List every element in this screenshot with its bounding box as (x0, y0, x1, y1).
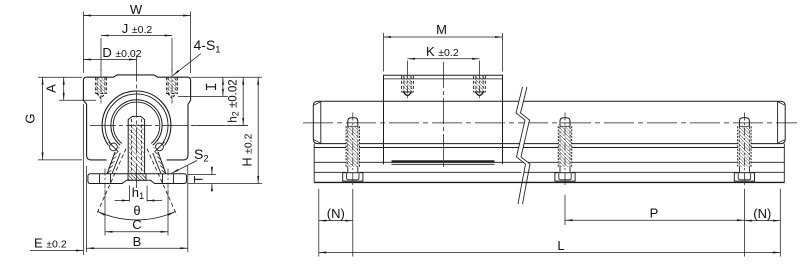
left mouth wall lines (107, 151, 120, 174)
open mouth white sector (105, 128, 168, 173)
svg-text:H ±0.2: H ±0.2 (241, 133, 255, 166)
svg-text:θ: θ (133, 203, 140, 218)
dimension W (83, 2, 190, 17)
slide block outline (side view) (384, 75, 503, 164)
dimension E extension line (82, 104, 84, 255)
support right end vertical (783, 144, 785, 183)
theta dashed line left (96, 149, 126, 216)
left wedge hatch (107, 147, 119, 173)
rail break lines (516, 87, 530, 204)
dimension A extension lines (38, 77, 96, 100)
bearing housing body outline (front view) (83, 75, 190, 160)
plate mounting hole walls right (163, 174, 174, 184)
mounting stud 1 (left) (343, 113, 363, 187)
rail right end face line (777, 101, 779, 143)
rail right chamfers (778, 102, 785, 144)
dimension B (86, 234, 187, 249)
dimension K (408, 44, 480, 60)
dimension D (83, 45, 141, 61)
dimension I extension line (178, 95, 228, 97)
dimension C extension lines (105, 190, 168, 236)
right mouth wall lines (153, 151, 166, 174)
svg-text:K ±0.2: K ±0.2 (426, 44, 459, 59)
dimension T extension line (188, 174, 216, 176)
dimension N-left extension lines (319, 189, 353, 257)
rail axis centerline (303, 122, 797, 124)
svg-text:(N): (N) (327, 206, 345, 221)
rail left end face line (320, 101, 322, 143)
dimension G extension line bottom (38, 159, 82, 161)
svg-text:D ±0.02: D ±0.02 (102, 45, 141, 60)
label S2 with leader (172, 146, 209, 173)
support stem column (128, 116, 144, 173)
support shoulder line (314, 147, 785, 149)
dimension L (319, 238, 781, 254)
support base top line (314, 171, 785, 173)
svg-text:A: A (44, 84, 59, 93)
base plate (rail support base, front view) (88, 174, 187, 184)
theta dashed line right (147, 149, 177, 216)
dimension H (241, 77, 260, 183)
dimension P (565, 205, 744, 221)
mounting stud 3 (right) (734, 113, 754, 187)
stem hatch (129, 124, 144, 174)
dimension J (101, 21, 172, 37)
svg-text:T: T (192, 175, 206, 183)
dimension A (44, 77, 65, 100)
plate hole centerline right (167, 169, 169, 189)
dimension J extension lines (101, 38, 172, 71)
theta dimension arc (98, 212, 175, 220)
dimension h1 extension lines (129, 186, 147, 202)
label 4-S1 with leader (173, 37, 221, 76)
dimension E (30, 236, 83, 252)
svg-text:J ±0.2: J ±0.2 (122, 21, 153, 36)
support step line (314, 161, 785, 163)
dimension W extension lines (83, 12, 190, 74)
label theta (133, 203, 140, 218)
clamp screw right (45 deg) (154, 142, 164, 152)
dimension h2 (227, 77, 244, 125)
dimension B extension lines (86, 166, 187, 252)
mounting stud 2 (middle) (555, 113, 575, 187)
svg-text:G: G (23, 113, 38, 123)
vertical centerline (front view) (136, 56, 138, 189)
dimension N-right extension lines (744, 189, 780, 257)
dimension h2 extension line (191, 124, 248, 126)
dimension P extension line (564, 195, 566, 225)
dimension C (105, 217, 168, 233)
svg-text:M: M (436, 22, 447, 37)
bearing outer circle (111, 100, 162, 151)
block tapped hole S1 left (side view) (402, 71, 414, 102)
stem base block in plate (128, 174, 146, 180)
dimension N-left (319, 206, 353, 222)
dimension G (23, 77, 44, 160)
support base bottom (314, 181, 785, 183)
stem hidden thread lines (132, 119, 142, 180)
right wedge hatch (154, 147, 166, 173)
svg-text:P: P (650, 205, 659, 220)
plate hole centerline left (104, 169, 106, 189)
svg-text:E ±0.2: E ±0.2 (34, 236, 67, 251)
svg-text:C: C (132, 217, 141, 232)
dimension I (207, 77, 224, 96)
housing bore inner ring circle (105, 94, 168, 157)
dimension K extension lines (408, 61, 480, 72)
rail left chamfers (314, 102, 321, 144)
block tapped hole S1 right (side view) (474, 71, 486, 102)
rail shaft outline (313, 101, 785, 143)
horizontal centerline (front view) (90, 124, 248, 126)
dimension T (192, 167, 213, 192)
support left end vertical (313, 144, 315, 183)
svg-text:(N): (N) (753, 206, 771, 221)
dimension H top extension (191, 76, 262, 78)
svg-text:W: W (130, 2, 143, 17)
dimension N-right (744, 206, 780, 222)
plate mounting hole walls left (100, 174, 111, 184)
dimension H bottom extension (188, 183, 262, 185)
tapped hole S1 right (front view) (166, 70, 177, 104)
housing bore outer circle (102, 91, 171, 160)
svg-text:L: L (557, 238, 564, 253)
tapped hole S1 left (front view) (95, 70, 106, 104)
svg-text:B: B (133, 234, 142, 249)
bearing bore circle (113, 102, 160, 149)
dimension M extension lines (384, 33, 503, 72)
block vertical centerline (443, 62, 445, 170)
dimension h1 (115, 185, 163, 202)
clamp screw left (45 deg) (108, 142, 118, 152)
dimension M (384, 22, 503, 38)
